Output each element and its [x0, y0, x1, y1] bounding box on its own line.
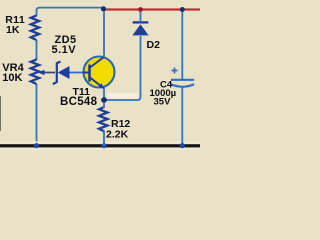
svg-text:10K: 10K — [2, 72, 22, 84]
svg-text:35V: 35V — [154, 97, 172, 108]
svg-text:BC548: BC548 — [60, 96, 98, 108]
svg-text:5.1V: 5.1V — [52, 44, 77, 56]
svg-text:1K: 1K — [6, 24, 20, 36]
svg-text:2.2K: 2.2K — [106, 128, 129, 140]
svg-text:D2: D2 — [147, 39, 161, 51]
